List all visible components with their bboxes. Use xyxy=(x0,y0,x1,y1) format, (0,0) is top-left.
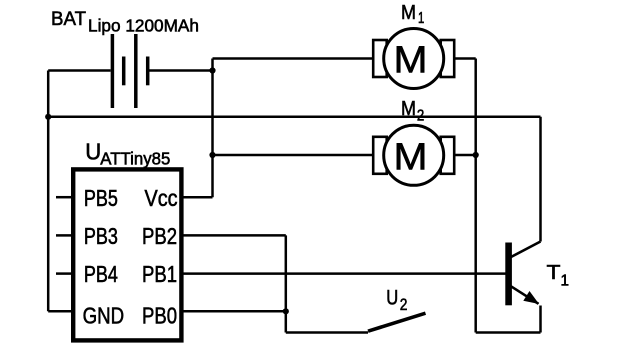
svg-text:T: T xyxy=(547,261,562,284)
svg-text:ATTiny85: ATTiny85 xyxy=(100,148,170,168)
svg-text:M: M xyxy=(394,40,428,82)
svg-text:PB5: PB5 xyxy=(84,185,118,211)
svg-text:PB1: PB1 xyxy=(142,261,177,287)
svg-text:U: U xyxy=(85,139,101,165)
svg-text:M: M xyxy=(401,98,416,120)
svg-text:M: M xyxy=(394,136,428,178)
svg-text:U: U xyxy=(386,286,398,309)
svg-text:Lipo 1200MAh: Lipo 1200MAh xyxy=(88,15,199,35)
svg-text:BAT: BAT xyxy=(51,8,86,30)
svg-text:PB0: PB0 xyxy=(142,303,177,329)
svg-text:M: M xyxy=(401,2,416,24)
svg-text:Vcc: Vcc xyxy=(145,185,178,211)
svg-text:PB3: PB3 xyxy=(84,223,118,249)
svg-text:1: 1 xyxy=(561,272,570,289)
svg-text:1: 1 xyxy=(418,10,424,27)
svg-text:PB4: PB4 xyxy=(84,261,118,287)
svg-text:2: 2 xyxy=(417,107,424,124)
svg-text:PB2: PB2 xyxy=(142,223,177,249)
svg-text:2: 2 xyxy=(400,295,408,314)
svg-text:GND: GND xyxy=(83,303,125,329)
